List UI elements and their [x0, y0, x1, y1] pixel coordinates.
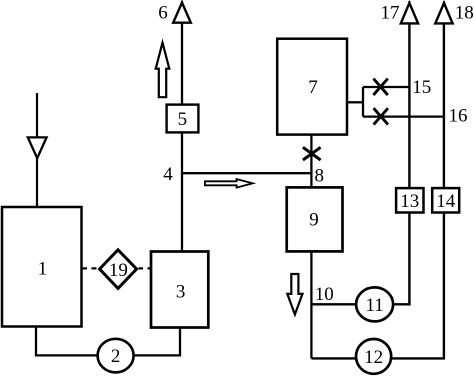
- svg-text:9: 9: [309, 210, 319, 231]
- wire bottom loop box1 to box3: [36, 327, 180, 355]
- svg-text:1: 1: [38, 259, 48, 280]
- svg-text:15: 15: [412, 77, 431, 98]
- wire top branch to pipe 17: [363, 86, 409, 88]
- svg-text:4: 4: [163, 164, 173, 185]
- box 9: [287, 187, 343, 251]
- wire inlet top-left: [36, 93, 38, 137]
- svg-text:17: 17: [381, 2, 400, 23]
- wire bracket vertical: [362, 87, 364, 117]
- wire stub box7 right: [347, 101, 363, 103]
- wire tip above arrow 6: [181, 1, 183, 4]
- svg-text:5: 5: [178, 109, 188, 130]
- wire node 4 up to box 5: [181, 133, 183, 174]
- wire box 9 bottom down to bottom line: [310, 251, 312, 358]
- box 5: [167, 105, 199, 133]
- svg-text:2: 2: [111, 346, 121, 367]
- box 14: [432, 188, 459, 212]
- flow block arrow up (hollow): [156, 43, 170, 98]
- meter circle 11: [356, 287, 393, 321]
- flow block arrow right (hollow): [205, 179, 253, 188]
- svg-text:18: 18: [455, 2, 474, 23]
- wire inlet into box 1: [36, 158, 38, 206]
- wire bottom line to circle 12 to box 14 line: [311, 213, 444, 359]
- svg-text:7: 7: [308, 77, 318, 98]
- flow block arrow down (hollow): [287, 274, 302, 314]
- svg-text:8: 8: [314, 165, 324, 186]
- box 7: [277, 39, 347, 135]
- wire box 5 to vent arrow 6: [181, 23, 183, 105]
- flow arrow (hollow triangle down) on inlet: [28, 137, 47, 158]
- wire box7 bottom to node 8: [310, 135, 312, 174]
- svg-text:19: 19: [109, 260, 128, 281]
- svg-text:3: 3: [176, 282, 186, 303]
- dashed wire box1 to diamond 19: [82, 267, 100, 269]
- box 13: [396, 188, 423, 212]
- wire node 8 into box 9: [310, 173, 312, 187]
- svg-text:10: 10: [315, 284, 334, 305]
- wire node 10 to circle 11 to box 13 line: [311, 213, 409, 305]
- wire tip above arrow 17: [408, 1, 410, 4]
- svg-text:6: 6: [158, 2, 168, 23]
- wire tip above arrow 18: [443, 1, 445, 4]
- valve X on box7 bottom line: [303, 147, 321, 160]
- wire bottom branch to pipe 18: [363, 115, 444, 117]
- box 3: [151, 252, 208, 328]
- svg-text:16: 16: [449, 106, 468, 127]
- vent arrow 6 (hollow triangle up): [173, 3, 191, 23]
- wire node 4 to node 8: [182, 172, 311, 174]
- box 1: [2, 207, 82, 327]
- svg-text:12: 12: [364, 347, 383, 368]
- diamond 19: [100, 250, 137, 289]
- meter circle 12: [356, 339, 391, 374]
- vent arrow 17 (hollow triangle up): [401, 3, 418, 23]
- wire pipe 17 vertical: [408, 23, 410, 188]
- svg-text:11: 11: [365, 295, 383, 316]
- pump circle 2: [98, 339, 134, 373]
- valve X on bottom branch: [374, 108, 388, 124]
- svg-text:13: 13: [400, 191, 419, 212]
- wire pipe 18 vertical: [443, 23, 445, 188]
- svg-text:14: 14: [436, 191, 456, 212]
- wire box3 top to node 4: [181, 173, 183, 252]
- vent arrow 18 (hollow triangle up): [435, 3, 452, 23]
- dashed wire diamond 19 to box 3: [139, 267, 152, 269]
- valve X on top branch: [373, 79, 387, 95]
